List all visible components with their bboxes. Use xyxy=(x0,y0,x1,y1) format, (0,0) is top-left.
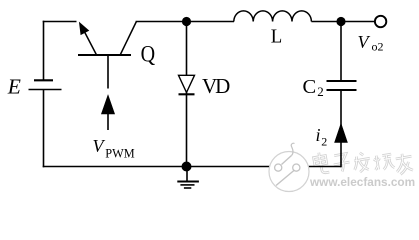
svg-text:o2: o2 xyxy=(372,40,384,54)
watermark char 烧 xyxy=(373,153,394,171)
arrow i2 xyxy=(335,124,348,143)
transistor Q base bar xyxy=(78,54,131,56)
watermark char 发 xyxy=(352,151,372,173)
watermark url www.elecfans.com xyxy=(309,175,416,190)
watermark char 子 xyxy=(332,153,351,173)
diode VD symbol xyxy=(179,75,195,94)
wire capacitor upper xyxy=(340,22,342,81)
wire top middle (collector to inductor) xyxy=(136,21,234,23)
label i2 xyxy=(316,125,328,148)
arrow Vpwm xyxy=(101,95,114,130)
wire bottom xyxy=(43,166,341,168)
transistor Q emitter with arrow xyxy=(80,23,97,55)
battery E long plate xyxy=(29,89,62,91)
terminal Vo2 (open circle) xyxy=(375,16,386,27)
capacitor C2 plates xyxy=(327,81,357,90)
svg-text:Q: Q xyxy=(141,41,156,66)
wire left vertical upper (to battery) xyxy=(43,21,45,80)
svg-text:2: 2 xyxy=(317,84,324,99)
wire capacitor lower xyxy=(340,91,342,167)
inductor L xyxy=(234,11,312,22)
watermark logo (elecfans) xyxy=(269,143,309,191)
transistor Q collector xyxy=(120,22,136,55)
svg-text:VD: VD xyxy=(202,74,230,98)
wire diode vertical xyxy=(186,22,188,167)
svg-text:2: 2 xyxy=(321,134,327,148)
transistor Q base lead xyxy=(107,55,109,89)
node dot ground junction xyxy=(182,162,192,172)
svg-text:C: C xyxy=(303,76,317,98)
label Vo2 xyxy=(358,32,384,54)
battery E short plate xyxy=(34,79,53,81)
watermark char 电 xyxy=(313,151,329,174)
wire top-left (battery + to emitter) xyxy=(43,21,77,23)
watermark char 友 xyxy=(394,152,414,175)
svg-text:www.elecfans.com: www.elecfans.com xyxy=(309,175,415,189)
label Vpwm xyxy=(93,136,135,160)
node dot output junction xyxy=(336,17,345,26)
node dot diode junction xyxy=(182,17,191,26)
wire inductor to output xyxy=(311,21,374,23)
svg-text:L: L xyxy=(271,26,283,47)
svg-text:PWM: PWM xyxy=(105,146,134,160)
label C2 xyxy=(303,76,324,99)
svg-text:E: E xyxy=(7,74,21,98)
svg-text:i: i xyxy=(316,125,321,145)
wire left vertical lower xyxy=(43,90,45,167)
ground xyxy=(177,167,199,189)
